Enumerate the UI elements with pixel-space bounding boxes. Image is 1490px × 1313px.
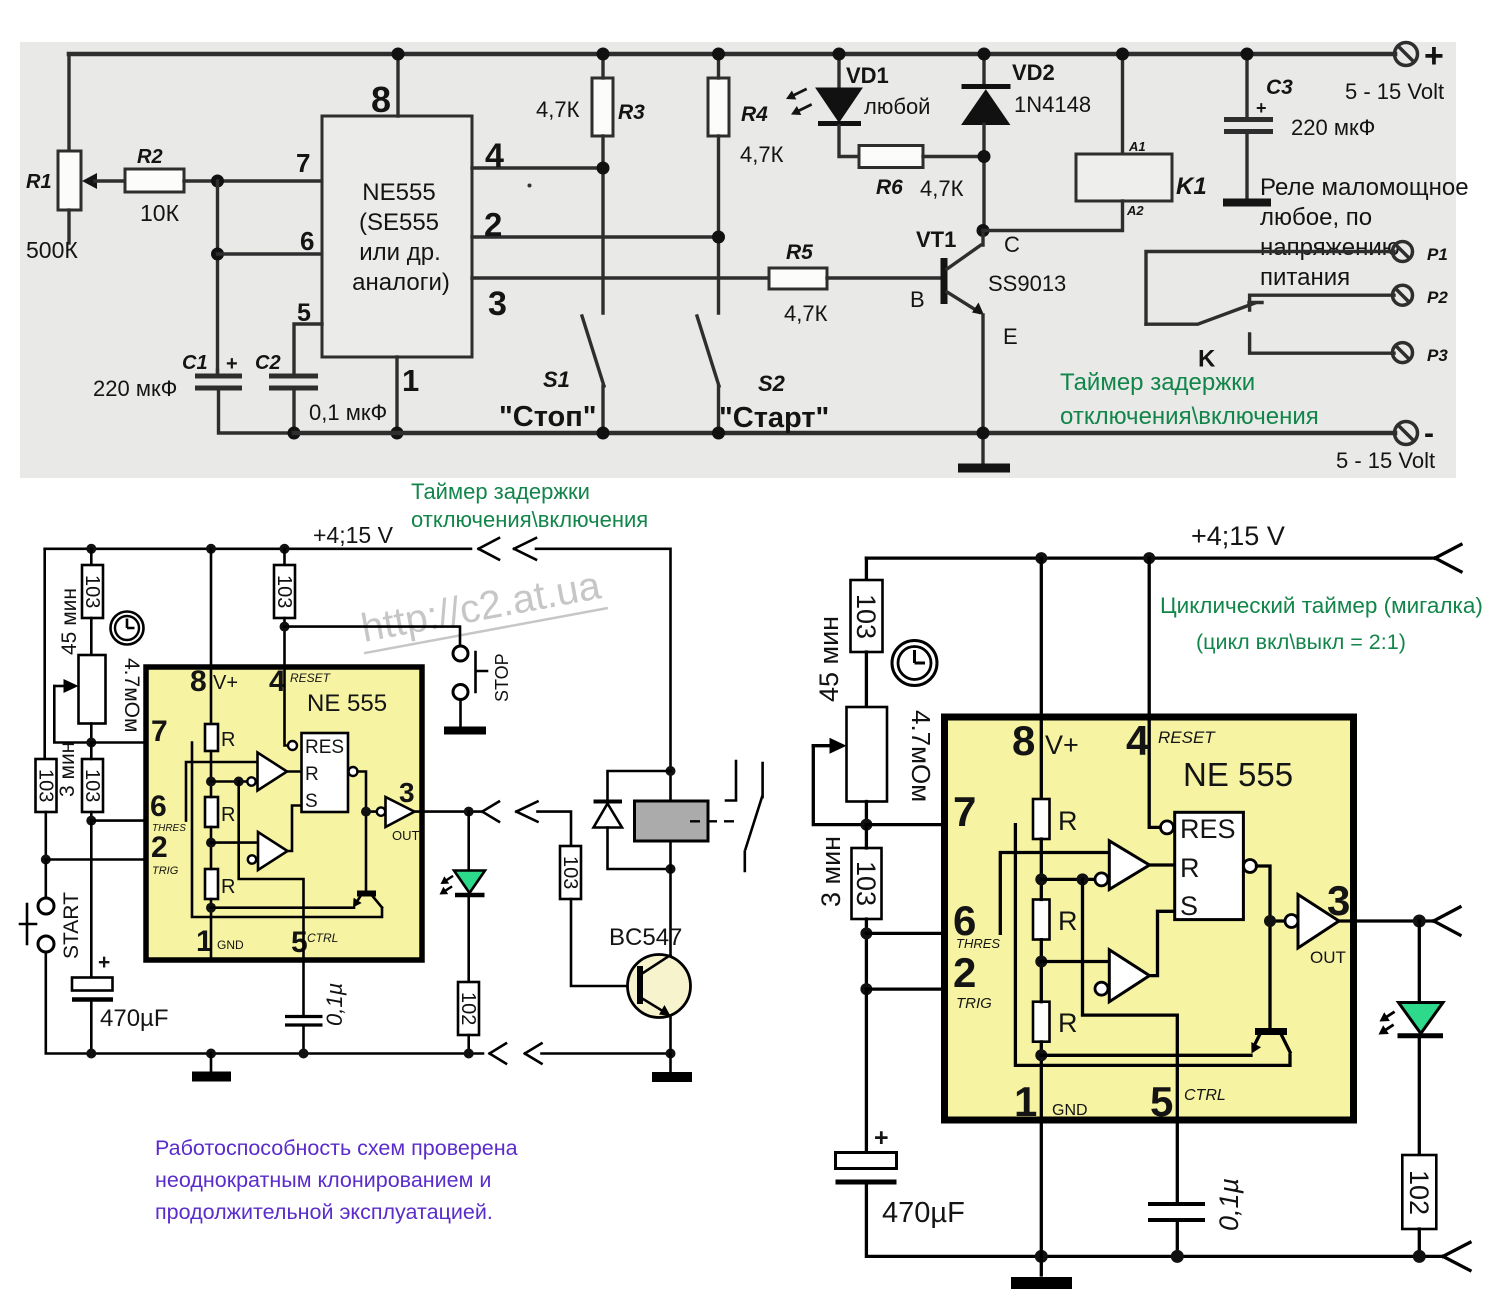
pin4 103 resistor column xyxy=(283,549,286,565)
pin5 wire to 0.1u cap xyxy=(302,960,305,1015)
terminal minus: circle xyxy=(1395,422,1418,445)
wire: R3 bottom to pin4 node then S1 xyxy=(601,136,604,313)
svg-text:4,7К: 4,7К xyxy=(784,301,828,326)
upper comparator triangle (right) xyxy=(1109,841,1149,890)
pin 5 stub wire xyxy=(294,324,322,376)
svg-text:отключения\включения: отключения\включения xyxy=(1060,403,1319,430)
clock icon xyxy=(111,612,144,645)
wire: LED to 102 xyxy=(467,897,470,982)
svg-text:6: 6 xyxy=(150,790,167,823)
OUT buffer bubble xyxy=(377,807,385,815)
wire: TRIG horizontal into IC xyxy=(46,858,249,861)
upper comparator triangle xyxy=(258,753,288,791)
svg-text:V+: V+ xyxy=(1045,730,1079,760)
wire: pin7 horizontal (right) xyxy=(866,823,1015,826)
svg-text:CTRL: CTRL xyxy=(307,931,338,945)
svg-text:P1: P1 xyxy=(1427,245,1448,264)
node: GND column on bottom rail xyxy=(206,1049,216,1059)
relay dashed linkage xyxy=(690,820,737,822)
node: gnd chain xyxy=(206,903,216,913)
svg-text:+: + xyxy=(226,353,238,375)
wire: ctrl tap down and to pin5 xyxy=(239,782,304,961)
node: S1 on bottom rail xyxy=(597,427,610,440)
node: ctrl tap xyxy=(234,777,244,787)
wire: coil bottom to BC547 collector xyxy=(669,841,672,960)
relay contact lever xyxy=(745,797,762,871)
svg-text:R3: R3 xyxy=(618,101,645,124)
svg-text:(SE555: (SE555 xyxy=(359,209,439,236)
wire: upper comp out to FF xyxy=(287,770,302,773)
BC547 base bar xyxy=(637,966,643,1004)
svg-text:NE 555: NE 555 xyxy=(307,690,387,717)
transistor VT1 base bar xyxy=(941,258,948,304)
wire: 102 to rail (right) xyxy=(1418,1229,1421,1256)
discharge transistor base bar (right) xyxy=(1255,1028,1287,1035)
OUT buffer triangle (right) xyxy=(1298,895,1339,949)
wire: ctrl tap to pin5 (right) xyxy=(1083,879,1178,1120)
FF output bubble xyxy=(349,767,358,776)
svg-text:S: S xyxy=(305,791,318,812)
BC547 collector lead xyxy=(643,955,671,973)
wire: top rail (right schematic) xyxy=(866,556,1435,559)
wire: VD2 down to R6 node and VT1 collector node xyxy=(982,125,985,231)
connector chevron 2 (top rail) xyxy=(514,538,536,560)
svg-text:2: 2 xyxy=(151,831,168,864)
wire: 103 to pot (right) xyxy=(865,652,868,707)
svg-text:+: + xyxy=(874,1124,889,1152)
node: rail/103 reset junction xyxy=(280,544,290,554)
svg-text:1N4148: 1N4148 xyxy=(1014,92,1091,117)
svg-text:103: 103 xyxy=(81,575,103,608)
node: out branch xyxy=(361,807,371,817)
wire: START bottom to rail corner xyxy=(46,952,483,1054)
resistor 102 (right) xyxy=(1402,1155,1436,1229)
wire: R4 bottom through pin2 node to S2 xyxy=(717,136,720,313)
BC547 emitter lead xyxy=(643,999,666,1013)
node: divider 1/3 xyxy=(206,838,216,848)
svg-text:продолжительной эксплуатацией.: продолжительной эксплуатацией. xyxy=(155,1200,493,1224)
svg-text:5: 5 xyxy=(291,926,308,959)
wire: 0.1u to rail xyxy=(302,1027,305,1054)
capacitor C1 plates xyxy=(195,376,242,388)
switch START circle bottom xyxy=(38,936,54,952)
LED D1 emission arrows xyxy=(438,872,455,888)
svg-text:45 мин: 45 мин xyxy=(814,616,844,702)
wire: pin6 node down to 470uF xyxy=(90,821,93,978)
svg-text:R4: R4 xyxy=(741,103,768,126)
svg-text:"Старт": "Старт" xyxy=(719,402,829,434)
svg-text:или др.: или др. xyxy=(359,239,441,266)
capacitor 470uF plus plate xyxy=(72,978,113,991)
wire: out right segment to 103 xyxy=(538,812,572,846)
svg-text:(цикл вкл\выкл = 2:1): (цикл вкл\выкл = 2:1) xyxy=(1196,630,1406,654)
wire: TRIG node down to START xyxy=(44,860,47,898)
resistor 103 (base) xyxy=(560,846,581,899)
relay coil box (grey) xyxy=(635,801,709,841)
wire: 103 to BC547 base xyxy=(571,899,637,986)
svg-text:Работоспособность схем провере: Работоспособность схем проверена xyxy=(155,1136,518,1160)
relay branch: diode tee xyxy=(666,766,676,776)
svg-text:S: S xyxy=(1180,891,1198,921)
svg-text:45 мин: 45 мин xyxy=(58,588,81,655)
svg-text:3: 3 xyxy=(488,285,507,323)
svg-text:103: 103 xyxy=(559,856,581,889)
node: 0.1u on rail xyxy=(299,1049,309,1059)
svg-text:VT1: VT1 xyxy=(916,227,956,252)
wire: C3 bottom to ground xyxy=(1245,134,1248,199)
pin8 vertical (right) xyxy=(1040,558,1043,799)
internal resistor R mid xyxy=(205,797,218,827)
svg-text:P3: P3 xyxy=(1427,346,1448,365)
svg-text:0,1 мкФ: 0,1 мкФ xyxy=(309,400,387,425)
svg-text:VD1: VD1 xyxy=(846,63,889,88)
wire: R5 to VT1 base xyxy=(827,276,941,279)
node: ctrl tap (right) xyxy=(1077,873,1089,885)
svg-text:+4;15 V: +4;15 V xyxy=(313,522,394,548)
svg-text:103: 103 xyxy=(273,575,295,608)
node: VD2 on rail xyxy=(978,48,991,61)
resistor 103 (45 мин) xyxy=(82,565,103,618)
switch STOP actuator xyxy=(476,652,488,692)
svg-text:аналоги): аналоги) xyxy=(352,269,450,296)
svg-text:R: R xyxy=(1058,1008,1078,1038)
wire: K1 bottom to collector junction xyxy=(983,201,1123,231)
node: collector/relay junction xyxy=(977,224,990,237)
svg-text:Циклический таймер (мигалка): Циклический таймер (мигалка) xyxy=(1160,593,1483,618)
wire: 45min column from rail xyxy=(90,549,93,565)
LED D2 cathode bar xyxy=(1398,1033,1444,1038)
capacitor 470uF minus plate xyxy=(72,997,113,1002)
node: rail/pin4 xyxy=(1143,552,1155,564)
wire: pin1 below IC (right) xyxy=(1040,1120,1043,1275)
resistor R6 xyxy=(859,146,923,168)
internal resistor R top (right) xyxy=(1033,799,1050,839)
wire: divider 1/3 to lower comp xyxy=(211,841,258,844)
wire: C1 bottom to rail corner xyxy=(219,390,295,433)
IC U1 NE555 body xyxy=(322,116,472,357)
discharge transistor emitter xyxy=(355,896,361,905)
resistor 103 (45 мин right) xyxy=(851,580,883,652)
relay contact L xyxy=(726,761,736,801)
wire: FF out to OUT buffer and transistor (right) xyxy=(1257,866,1286,1029)
discharge transistor base bar xyxy=(357,891,376,897)
svg-text:Таймер задержки: Таймер задержки xyxy=(411,479,590,504)
svg-text:R5: R5 xyxy=(786,241,813,264)
internal resistor R top xyxy=(205,724,218,751)
flip-flop box xyxy=(302,733,349,812)
svg-text:любое, по: любое, по xyxy=(1260,204,1372,231)
svg-text:R: R xyxy=(1180,853,1200,883)
wire: left drop from rail to R1 xyxy=(67,54,70,151)
top schematic grey background xyxy=(20,42,1456,478)
node: TRIG junction left xyxy=(41,855,51,865)
svg-text:RES: RES xyxy=(1180,814,1236,844)
svg-text:любой: любой xyxy=(864,94,930,119)
node: divider 2/3 (right) xyxy=(1035,873,1047,885)
lower comparator triangle xyxy=(258,832,288,870)
wire: pin7 horizontal into IC xyxy=(91,741,192,744)
resistor R3 xyxy=(592,78,613,136)
wire: STOP to ground xyxy=(459,700,462,728)
svg-text:1: 1 xyxy=(402,363,419,398)
svg-text:-: - xyxy=(1424,417,1434,450)
wire: P3 drop and line xyxy=(1250,334,1394,353)
svg-text:C: C xyxy=(1004,232,1020,257)
node: emitter on bottom rail xyxy=(977,427,990,440)
pin8/V+ vertical through IC xyxy=(210,549,213,724)
ground symbol (main) xyxy=(192,1072,231,1082)
LED D1 cathode bar xyxy=(455,893,485,898)
resistor R4 xyxy=(708,78,729,136)
switch START actuator xyxy=(20,904,36,944)
svg-text:102: 102 xyxy=(1404,1170,1434,1215)
wire: left column down from rail xyxy=(43,549,46,759)
svg-text:C3: C3 xyxy=(1266,76,1293,99)
wire: emitter to rail xyxy=(669,1016,672,1054)
pin 1 wire xyxy=(395,357,398,433)
relay K1 coil wire from rail xyxy=(1121,54,1124,154)
switch START circle top xyxy=(38,898,54,914)
svg-text:103: 103 xyxy=(851,861,881,906)
relay K1 coil box xyxy=(1076,154,1172,201)
svg-text:102: 102 xyxy=(457,992,479,1025)
wire: R3 top to rail xyxy=(601,54,604,78)
flip-flop box (right) xyxy=(1175,812,1244,919)
svg-text:TRIG: TRIG xyxy=(956,995,992,1012)
svg-text:4.7мОм: 4.7мОм xyxy=(120,658,143,732)
diode VD2 cathode bar xyxy=(962,84,1011,89)
svg-text:R: R xyxy=(1058,806,1078,836)
wire: stop branch xyxy=(285,627,461,645)
IC2 NE555 body (yellow) xyxy=(146,667,422,960)
svg-text:START: START xyxy=(60,892,83,959)
wire: pin7 internal (right) xyxy=(1015,825,1290,1066)
svg-text:P2: P2 xyxy=(1427,288,1448,307)
resistor 103 (3 мин right) xyxy=(852,848,882,919)
wire: 102 to bottom rail xyxy=(467,1035,470,1054)
svg-text:BC547: BC547 xyxy=(609,924,682,951)
svg-text:4.7мОм: 4.7мОм xyxy=(906,710,936,802)
wire: upper comp out to FF (right) xyxy=(1150,863,1175,866)
node: LED branch (right) xyxy=(1413,915,1426,928)
wire: top +V rail xyxy=(69,52,1395,57)
svg-text:8: 8 xyxy=(1012,717,1035,764)
terminal P3 xyxy=(1393,343,1413,363)
svg-text:4: 4 xyxy=(1126,717,1150,764)
svg-text:GND: GND xyxy=(217,938,244,952)
svg-text:220 мкФ: 220 мкФ xyxy=(93,376,177,401)
svg-text:+: + xyxy=(1424,37,1444,75)
upper comparator bubble xyxy=(247,777,255,785)
svg-text:GND: GND xyxy=(1052,1102,1088,1119)
wire: divider to upper bubble (right) xyxy=(1041,878,1095,881)
svg-text:+4;15 V: +4;15 V xyxy=(1191,521,1285,551)
ground symbol below C3 xyxy=(1223,199,1271,207)
wire: VT1 emitter down to rail and ground xyxy=(981,315,984,464)
node: C3 on rail xyxy=(1241,48,1254,61)
svg-text:R: R xyxy=(305,764,319,785)
wire: TRIG node down to 470uF (right) xyxy=(865,989,868,1153)
wire: top rail right segment to relay drop xyxy=(536,549,671,801)
svg-text:SS9013: SS9013 xyxy=(988,271,1066,296)
ground symbol (stop) xyxy=(444,727,486,735)
node: LED branch xyxy=(464,807,474,817)
watermark text c2.at.ua xyxy=(356,563,608,653)
svg-text:Таймер задержки: Таймер задержки xyxy=(1060,369,1255,396)
resistor 103 (left column) xyxy=(36,759,57,812)
pin5 wire to 0.1u (right) xyxy=(1176,1120,1179,1202)
svg-text:напряжению: напряжению xyxy=(1260,234,1400,261)
wire: pin6 internal (right) xyxy=(1000,853,1109,934)
wire: 470uF bottom to rail xyxy=(90,1001,93,1054)
LED VD1 cathode bar xyxy=(818,121,861,126)
switch STOP circle top xyxy=(453,646,468,661)
wire: R4 top to rail xyxy=(717,54,720,78)
wire: LED drop xyxy=(467,812,470,870)
connector chevron 2 (out) xyxy=(516,802,537,822)
svg-text:S2: S2 xyxy=(758,371,786,396)
LED VD1 wire from rail xyxy=(837,54,840,88)
svg-text:5: 5 xyxy=(1150,1078,1173,1125)
capacitor 470uF minus plate (right) xyxy=(836,1180,897,1185)
svg-text:A1: A1 xyxy=(1128,139,1146,154)
wire: R1 bottom stub xyxy=(67,210,70,243)
pin4 internal wire xyxy=(285,667,289,746)
potentiometer wiper arrow xyxy=(54,685,66,688)
clock icon (right) xyxy=(892,641,937,686)
node: pin7 junction (right) xyxy=(860,819,872,831)
capacitor 0.1u plates (right) xyxy=(1148,1204,1205,1220)
lower comparator triangle (right) xyxy=(1109,950,1149,1002)
node: pin4/R3 junction xyxy=(597,162,610,175)
svg-text:C2: C2 xyxy=(255,352,281,374)
svg-text:R: R xyxy=(221,729,235,751)
upper comparator bubble (right) xyxy=(1095,873,1108,886)
svg-text:NE 555: NE 555 xyxy=(1183,756,1293,793)
LED D2 emission arrows xyxy=(1377,1007,1398,1026)
wire: FF out to OUT buffer and transistor xyxy=(358,772,378,893)
switch S1 lever xyxy=(582,316,604,386)
wire: P1 line xyxy=(1146,252,1394,325)
svg-text:R: R xyxy=(221,804,235,826)
svg-text:TRIG: TRIG xyxy=(152,865,179,877)
node: pin8 on rail xyxy=(392,48,405,61)
node: pin1 on bottom rail xyxy=(391,427,404,440)
capacitor 470uF plus plate (right) xyxy=(836,1153,897,1169)
svg-text:7: 7 xyxy=(296,148,310,178)
svg-text:4: 4 xyxy=(485,137,504,175)
terminal plus: circle xyxy=(1395,43,1418,66)
relay contact right post xyxy=(761,763,764,797)
svg-text:RESET: RESET xyxy=(1158,728,1216,747)
wire: diode bottom to coil bottom node xyxy=(608,828,671,870)
svg-text:питания: питания xyxy=(1260,264,1350,291)
node: 0.1u on rail (right) xyxy=(1171,1250,1184,1263)
ground symbol (right) xyxy=(1011,1277,1072,1289)
node: pin2/R4 junction xyxy=(712,231,725,244)
wire: lower comp out to FF S input xyxy=(288,806,302,852)
svg-text:5 - 15 Volt: 5 - 15 Volt xyxy=(1345,79,1444,104)
svg-text:отключения\включения: отключения\включения xyxy=(411,507,648,532)
svg-text:V+: V+ xyxy=(213,672,238,694)
wire: R1 wiper to R2 xyxy=(95,179,125,182)
svg-text:STOP: STOP xyxy=(492,653,512,702)
wire: OUT to outside (right) xyxy=(1339,919,1434,922)
transistor BC547 circle xyxy=(628,955,691,1018)
svg-text:NE555: NE555 xyxy=(362,179,435,206)
svg-text:B: B xyxy=(910,287,925,312)
wire: bottom rail xyxy=(294,431,1395,436)
potentiometer 4.7МОм body (right) xyxy=(847,707,888,802)
svg-text:RES: RES xyxy=(305,737,344,758)
discharge transistor emitter (right) xyxy=(1254,1035,1260,1046)
svg-text:103: 103 xyxy=(35,769,57,802)
wire: gnd chain to emitter xyxy=(211,906,354,909)
wire: R2 to pin 7 of IC xyxy=(184,179,322,182)
diode VD2 wire from rail xyxy=(982,54,985,86)
node: R4 on rail xyxy=(712,48,725,61)
lower comparator bubble (right) xyxy=(1095,982,1108,995)
wire: 3мин resistor junctions xyxy=(90,743,93,821)
svg-text:500К: 500К xyxy=(26,237,78,263)
connector chevron (bottom rail right) xyxy=(1443,1242,1470,1270)
IC3 NE555 body (yellow right) xyxy=(945,717,1354,1120)
LED VD1 triangle xyxy=(816,88,862,122)
LED D1 triangle (green) xyxy=(454,871,485,894)
transistor VT1 collector lead xyxy=(947,234,983,269)
wire: OUT to outside xyxy=(415,810,484,813)
RES bubble xyxy=(288,741,297,750)
internal chain wires xyxy=(210,751,213,960)
ground symbol below VT1 xyxy=(958,464,1010,473)
capacitor C3 wire from rail xyxy=(1245,54,1248,116)
terminal P2 xyxy=(1393,285,1413,305)
diode VD2 triangle (pointing up) xyxy=(962,90,1010,125)
LED VD1 emission arrows xyxy=(784,84,809,103)
svg-text:A2: A2 xyxy=(1126,203,1144,218)
wire: R6 to VD2 line xyxy=(923,155,984,158)
resistor R2 xyxy=(125,169,184,192)
connector chevron 2 (bottom rail) xyxy=(525,1043,542,1063)
internal chain wires (right) xyxy=(1040,839,1043,1120)
internal resistor R bottom (right) xyxy=(1033,1002,1050,1042)
node: K1 on rail xyxy=(1116,48,1129,61)
svg-text:R6: R6 xyxy=(876,176,903,199)
wire: TRIG horizontal (right) xyxy=(866,987,1095,990)
node: rail/pin8 xyxy=(1035,552,1047,564)
connector chevron 1 (bottom rail) xyxy=(490,1043,507,1063)
node: pin7 junction xyxy=(86,738,96,748)
pin4 vertical (right) xyxy=(1149,558,1160,827)
switch S2 lever xyxy=(697,316,719,386)
wire: left column from rail xyxy=(865,558,868,580)
wire: junction down to pin6 node and C1 xyxy=(216,181,219,376)
svg-text:OUT: OUT xyxy=(392,828,420,843)
capacitor C3 plates xyxy=(1224,120,1273,132)
wire: diode branch top xyxy=(608,771,671,800)
pin 4 wire xyxy=(472,166,603,169)
node: coil bottom junction xyxy=(666,864,676,874)
discharge transistor collector (right) xyxy=(1282,1035,1291,1052)
svg-text:R1: R1 xyxy=(26,171,52,193)
node: pin6 junction xyxy=(86,816,96,826)
capacitor C2 plates xyxy=(269,376,318,388)
svg-text:8: 8 xyxy=(371,79,391,120)
wire: pin 6 horizontal xyxy=(218,252,323,255)
ground symbol (BC547) xyxy=(652,1072,692,1082)
node: pin6 junction (right) xyxy=(860,927,872,939)
switch STOP circle bottom xyxy=(453,685,468,700)
